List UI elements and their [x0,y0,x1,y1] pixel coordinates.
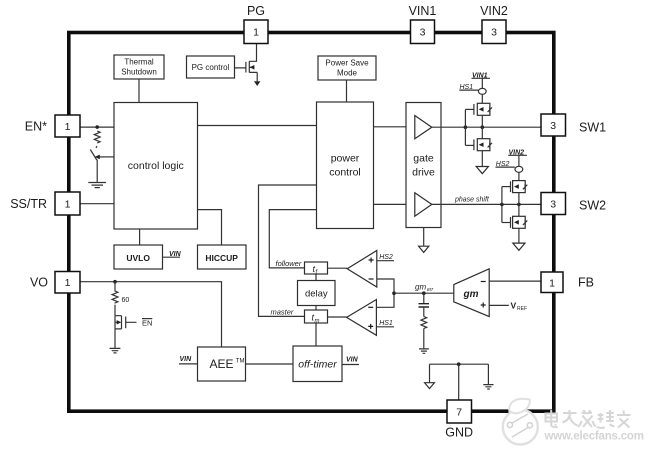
svg-text:m: m [315,318,320,324]
current sense HS2 (ellipse) [515,166,523,172]
node gate bus HS1 [464,125,468,129]
wire SW2 node to low FET [518,204,520,216]
wire control logic to power control [198,125,317,127]
svg-text:VIN: VIN [346,357,359,364]
block PG control [187,56,235,78]
net stub HS2 plus input [377,260,394,262]
svg-text:Thermal: Thermal [124,58,154,67]
buffer gate drive bottom [415,193,432,216]
wire VIN2 to sense [518,155,520,166]
svg-text:1: 1 [65,277,71,289]
pin VIN2 [482,20,506,44]
wire HS2 gate bus [501,187,503,223]
svg-text:VIN2: VIN2 [480,4,508,18]
wire GND network [430,363,489,365]
wire comparator HS2 minus to common node [377,279,394,293]
wire SW2 rail from gate drive (phase shift) [432,203,541,205]
wire off-timer VIN stub [342,364,359,366]
wire node to capacitor [423,293,425,303]
wire delay to t_m [315,306,317,311]
wire switch to ground [96,160,98,183]
svg-text:follower: follower [276,259,302,268]
node SW1 half-bridge [481,125,485,129]
ground compensation (earth) [419,349,429,353]
svg-text:www.elecfans.com: www.elecfans.com [544,431,644,443]
block off-timer [293,346,342,382]
pin SW2 [541,193,566,215]
ground HS1 (open arrow) [476,167,488,174]
svg-text:REF: REF [517,306,527,312]
block delay [298,281,336,306]
wire PG pin to FET drain [249,44,256,62]
resistor EN pulldown [94,131,100,143]
timer t_m box [305,310,328,323]
wire comparator HS1 output to t_m [328,316,347,318]
wire sense to high FET [481,94,483,103]
wire HS1 gate bus [464,109,466,145]
current sense HS1 (ellipse) [478,88,486,94]
svg-text:60: 60 [122,297,130,304]
block HICCUP [198,245,247,269]
transistor PG open-drain FET [235,61,258,72]
wire VO pin to AEE [80,282,222,347]
wire SS/TR pin to control logic [80,203,114,205]
svg-text:1: 1 [253,27,259,39]
wire SW1 node to low FET [481,127,483,139]
buffer gate drive top [415,116,432,139]
svg-text:gm: gm [415,283,426,292]
wire comparator HS2 output to t_f [328,267,348,269]
switch EN blade [96,146,97,148]
wire comparator HS1 minus to common node [376,293,394,307]
wire center to GND pin [458,364,460,400]
pin SW1 [541,114,566,136]
wire VIN stub to AEE [179,363,198,365]
svg-text:EN*: EN* [25,119,47,133]
wire gm plus input to VREF [489,304,509,306]
node SW2 half-bridge [517,203,521,207]
svg-text:SS/TR: SS/TR [10,197,47,211]
node EN junction [95,125,99,129]
net stub HS1 plus input [376,326,394,328]
svg-text:1: 1 [65,199,71,211]
comparator HS1 (points left) [347,300,377,336]
pin VO [55,272,80,294]
wire power control to gate drive top [374,126,407,128]
block UVLO [114,245,163,269]
svg-text:TM: TM [236,359,245,365]
svg-text:3: 3 [550,199,556,211]
pin VIN1 [411,20,435,44]
wire low FET to ground [518,228,520,243]
wire capacitor to resistor [423,307,425,317]
pin PG [244,20,268,44]
node GND junction [457,362,461,366]
svg-text:SW2: SW2 [579,199,606,213]
wire low FET to ground [481,151,483,167]
wire EN* pin to control logic [80,126,114,128]
svg-text:V: V [511,301,517,311]
svg-text:PG: PG [247,4,265,18]
svg-text:gm: gm [463,289,479,300]
wire power control to follower timer [269,210,316,268]
wire UVLO VIN stub [163,256,181,258]
svg-text:3: 3 [420,27,426,39]
ground right (earth) [483,385,493,389]
wire gate drive to ground [423,228,425,247]
svg-text:1: 1 [549,277,555,289]
block control logic [114,103,198,230]
wire FET to ground [114,329,116,348]
transistor HS1 high-side FET [474,103,492,115]
watermark logo circle [503,399,538,445]
svg-text:delay: delay [305,289,328,300]
wire t_m to off-timer [315,323,317,346]
svg-text:off-timer: off-timer [298,359,337,371]
svg-text:GND: GND [445,426,473,440]
capacitor compensation [419,304,430,307]
wire high FET to SW2 node [518,193,520,205]
transistor VO discharge FET [115,316,122,329]
wire t_f to delay [315,274,317,281]
wire switch drive from control logic with arrow [99,156,114,158]
wire common node to gm output [394,292,454,294]
svg-text:VIN: VIN [180,356,193,363]
svg-text:HS2: HS2 [379,254,393,261]
svg-text:phase shift: phase shift [454,197,490,204]
block AEE [198,347,246,381]
node gm compensation [422,291,426,295]
svg-text:err: err [427,287,433,293]
resistor 60 [112,282,118,304]
svg-text:Power Save: Power Save [325,59,369,68]
ground HS2 (open arrow) [513,243,525,250]
wire power save mode to power control [346,80,348,102]
wire power control to gate drive bottom [374,203,407,205]
ground PG (arrow) [254,81,260,86]
wire control logic to UVLO [139,229,141,245]
timer t_f box [305,262,328,274]
pin EN* [55,115,80,137]
resistor compensation [421,317,427,329]
svg-text:1: 1 [65,121,71,133]
svg-text:drive: drive [412,167,435,179]
svg-text:AEE: AEE [209,357,233,371]
wire power control to master timer [259,185,317,316]
block gate drive [406,103,441,228]
svg-text:VIN1: VIN1 [409,4,437,18]
block power control [317,102,374,229]
pin FB [541,272,563,293]
node comparator common [392,291,396,295]
wire resistor to ground [423,329,425,349]
svg-text:VO: VO [30,275,48,289]
amplifier gm error amp (points left) [454,269,489,317]
svg-text:Shutdown: Shutdown [121,68,157,77]
wire high FET to SW1 node [481,115,483,127]
wire thermal shutdown to control logic [138,79,140,103]
wire left branch to ground arrow [429,364,431,383]
svg-text:HS1: HS1 [379,320,393,327]
wire gm minus input to FB pin [489,280,541,282]
svg-text:control: control [329,167,361,179]
svg-text:power: power [331,153,360,165]
transistor HS1 low-side FET [474,139,492,151]
svg-text:Mode: Mode [337,69,358,78]
svg-text:3: 3 [491,27,497,39]
pin SS/TR [55,192,80,215]
svg-text:HICCUP: HICCUP [205,253,238,263]
transistor HS2 low-side FET [511,216,528,228]
comparator HS2 (points left) [347,251,377,288]
IC boundary box [69,33,554,412]
wire VIN1 to sense [481,78,483,88]
wire right branch to earth ground [487,364,489,384]
ground VO (earth) [110,348,121,353]
wire resistor to FET [114,305,116,316]
node VO junction [113,280,117,284]
svg-text:gate: gate [413,153,434,165]
pin GND [447,400,472,423]
ground gate drive (open arrow) [419,246,429,252]
ground left (open arrow) [425,383,435,389]
svg-text:FB: FB [578,276,594,290]
block Thermal Shutdown [114,55,164,79]
watermark CJK text (approximated glyph strokes) [546,410,631,428]
wire AEE to off-timer [246,363,294,365]
wire SW1 rail from gate drive [432,126,541,128]
wire PG FET source to ground arrow [256,72,258,81]
svg-text:PG control: PG control [192,63,230,72]
svg-text:3: 3 [550,120,556,132]
svg-text:7: 7 [456,407,462,419]
transistor HS2 high-side FET [511,181,528,193]
svg-text:UVLO: UVLO [126,253,150,263]
svg-text:master: master [271,307,294,316]
wire sense to high FET [518,172,520,180]
wire control logic to HICCUP [198,210,222,245]
svg-text:control logic: control logic [128,160,184,172]
block Power Save Mode [318,56,376,80]
svg-text:SW1: SW1 [579,121,606,135]
node gate bus HS2 [500,203,504,207]
ground EN (earth) [88,183,106,188]
svg-text:EN: EN [142,318,152,327]
